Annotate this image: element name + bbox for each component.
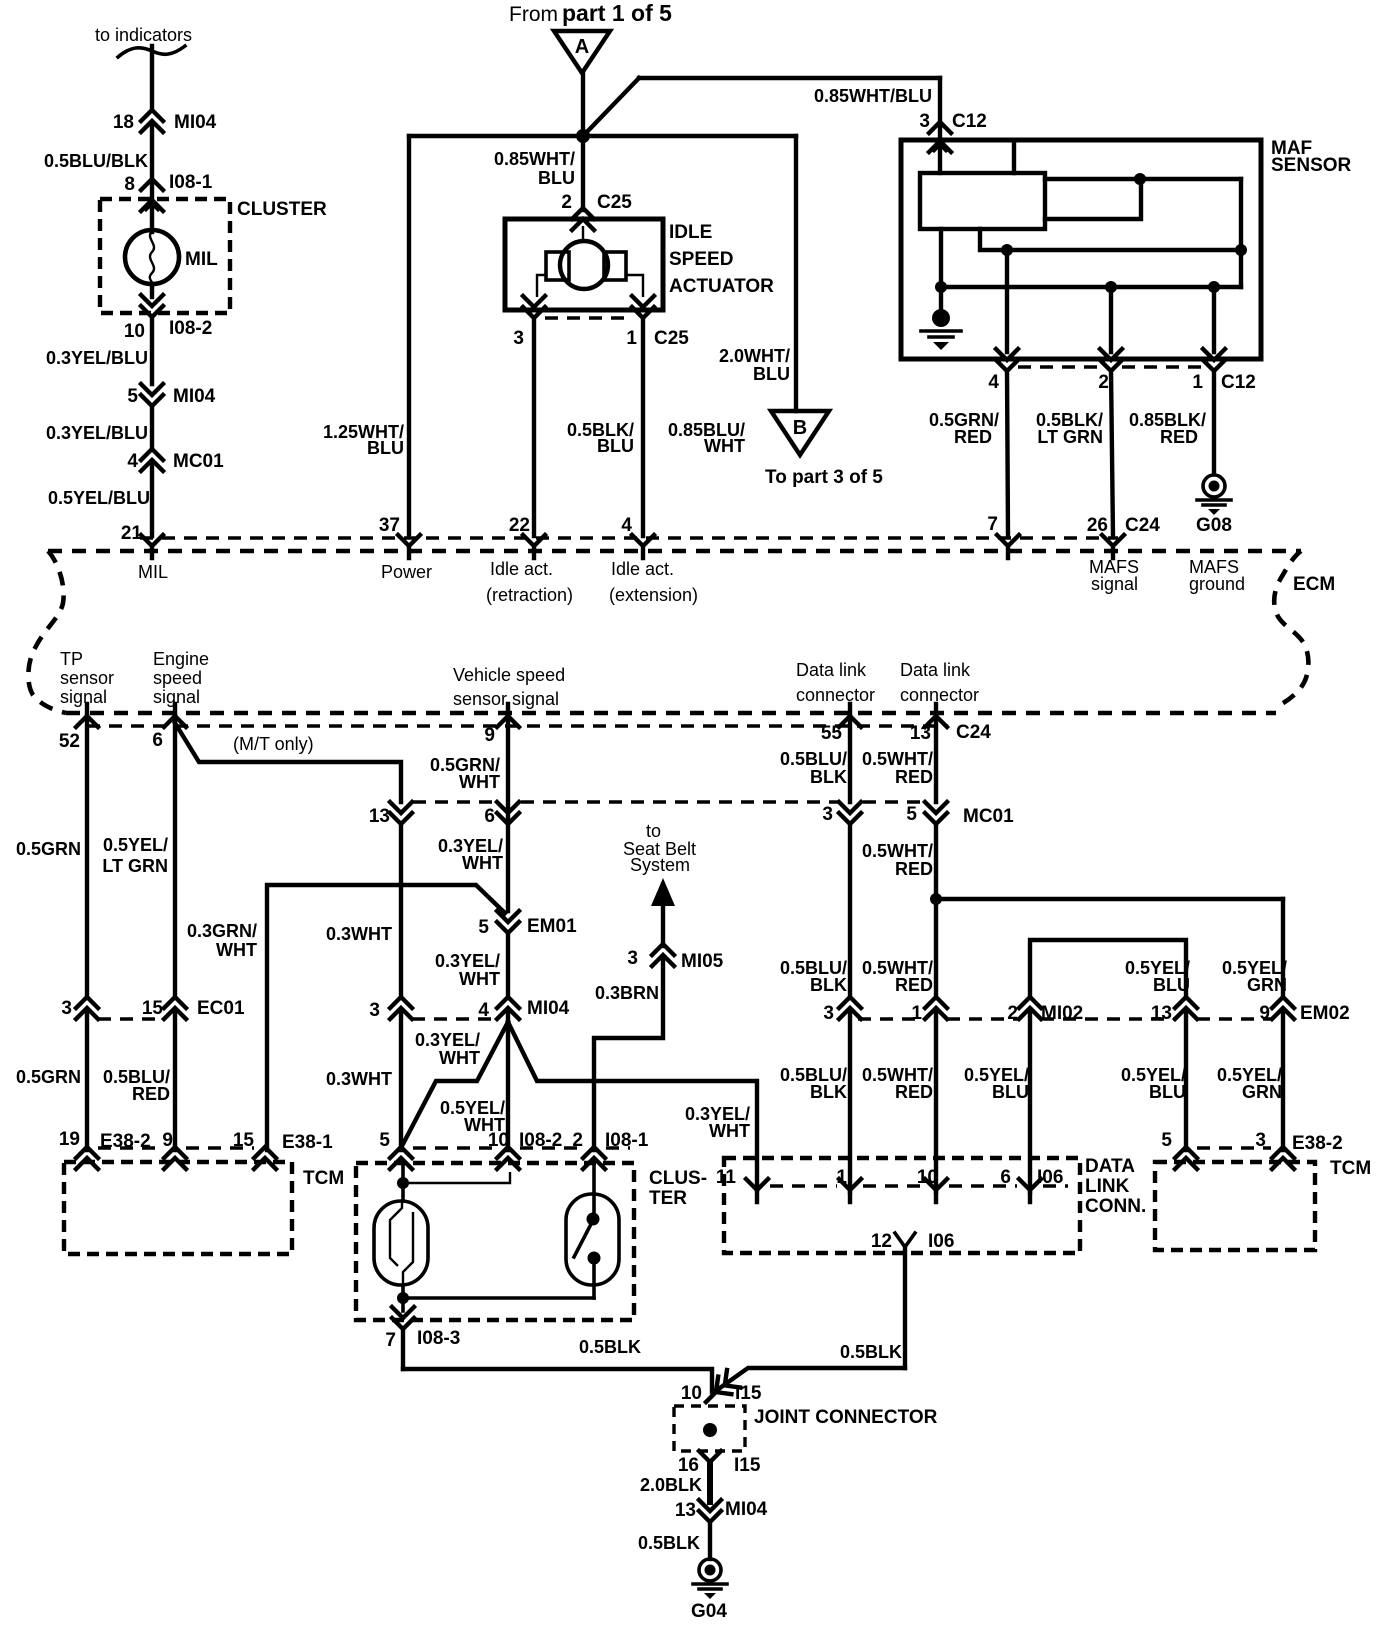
svg-text:C25: C25 <box>597 192 632 213</box>
svg-text:6: 6 <box>152 730 163 751</box>
svg-text:MI04: MI04 <box>173 386 216 407</box>
svg-text:TER: TER <box>649 1188 687 1209</box>
svg-text:WHT: WHT <box>439 1048 480 1068</box>
svg-text:1: 1 <box>911 1003 922 1024</box>
svg-text:B: B <box>793 417 807 439</box>
svg-text:WHT: WHT <box>709 1121 750 1141</box>
svg-text:EM02: EM02 <box>1300 1003 1350 1024</box>
svg-text:1: 1 <box>836 1167 847 1188</box>
svg-text:0.3YEL/: 0.3YEL/ <box>435 951 500 971</box>
svg-text:6: 6 <box>484 806 495 827</box>
svg-text:EC01: EC01 <box>197 998 245 1019</box>
svg-text:0.5YEL/BLU: 0.5YEL/BLU <box>48 488 150 508</box>
svg-text:speed: speed <box>153 668 202 688</box>
svg-text:part 1 of 5: part 1 of 5 <box>562 0 672 26</box>
svg-text:4: 4 <box>988 372 999 393</box>
svg-text:BLU: BLU <box>992 1082 1029 1102</box>
svg-text:0.5BLK: 0.5BLK <box>840 1342 902 1362</box>
svg-text:0.5WHT/: 0.5WHT/ <box>862 841 933 861</box>
svg-text:1: 1 <box>626 328 637 349</box>
svg-text:9: 9 <box>484 725 495 746</box>
svg-text:0.3YEL/BLU: 0.3YEL/BLU <box>46 423 148 443</box>
svg-text:I08-3: I08-3 <box>417 1328 460 1349</box>
svg-text:13: 13 <box>369 806 390 827</box>
svg-text:E38-1: E38-1 <box>282 1132 333 1153</box>
svg-text:GRN: GRN <box>1247 975 1287 995</box>
svg-text:BLK: BLK <box>810 1082 847 1102</box>
svg-text:JOINT CONNECTOR: JOINT CONNECTOR <box>754 1407 938 1428</box>
svg-text:5: 5 <box>478 917 489 938</box>
svg-text:BLU: BLU <box>1149 1082 1186 1102</box>
svg-text:10: 10 <box>124 321 145 342</box>
svg-text:0.5BLU/BLK: 0.5BLU/BLK <box>44 151 148 171</box>
svg-text:EM01: EM01 <box>527 916 577 937</box>
svg-text:I08-1: I08-1 <box>169 172 213 193</box>
svg-text:LT GRN: LT GRN <box>102 856 168 876</box>
svg-text:0.3BRN: 0.3BRN <box>595 983 659 1003</box>
svg-text:3: 3 <box>513 328 524 349</box>
svg-text:0.5GRN: 0.5GRN <box>16 1067 81 1087</box>
svg-text:0.3YEL/: 0.3YEL/ <box>415 1030 480 1050</box>
svg-text:11: 11 <box>716 1167 737 1188</box>
svg-text:5: 5 <box>127 386 138 407</box>
svg-text:2: 2 <box>1007 1003 1018 1024</box>
svg-text:0.3WHT: 0.3WHT <box>326 924 392 944</box>
svg-text:3: 3 <box>823 1003 834 1024</box>
svg-text:7: 7 <box>987 514 998 535</box>
svg-text:to indicators: to indicators <box>95 25 192 45</box>
svg-text:10: 10 <box>917 1167 938 1188</box>
svg-text:C24: C24 <box>1125 515 1160 536</box>
svg-text:37: 37 <box>379 515 400 536</box>
svg-text:19: 19 <box>59 1129 80 1150</box>
svg-text:WHT: WHT <box>216 940 257 960</box>
svg-text:ACTUATOR: ACTUATOR <box>669 276 774 297</box>
svg-text:LINK: LINK <box>1085 1176 1130 1197</box>
svg-text:BLU: BLU <box>597 436 634 456</box>
svg-text:signal: signal <box>1091 574 1138 594</box>
svg-text:connector: connector <box>900 685 979 705</box>
svg-text:MIL: MIL <box>185 249 218 270</box>
svg-text:4: 4 <box>621 515 632 536</box>
svg-text:RED: RED <box>1160 427 1198 447</box>
svg-text:MI02: MI02 <box>1041 1003 1083 1024</box>
svg-text:3: 3 <box>627 948 638 969</box>
svg-text:GRN: GRN <box>1242 1082 1282 1102</box>
svg-text:0.85WHT/BLU: 0.85WHT/BLU <box>814 86 932 106</box>
svg-text:signal: signal <box>60 687 107 707</box>
svg-text:RED: RED <box>895 975 933 995</box>
svg-text:TCM: TCM <box>303 1168 344 1189</box>
svg-text:To part 3 of 5: To part 3 of 5 <box>765 467 883 488</box>
svg-text:IDLE: IDLE <box>669 222 712 243</box>
svg-text:RED: RED <box>954 427 992 447</box>
svg-text:3: 3 <box>369 1000 380 1021</box>
svg-text:TCM: TCM <box>1330 1158 1371 1179</box>
svg-text:CONN.: CONN. <box>1085 1196 1146 1217</box>
svg-text:Idle act.: Idle act. <box>611 559 674 579</box>
svg-text:BLU: BLU <box>1153 975 1190 995</box>
svg-text:C12: C12 <box>1221 372 1256 393</box>
svg-text:0.5BLK: 0.5BLK <box>579 1337 641 1357</box>
svg-text:13: 13 <box>1151 1003 1172 1024</box>
svg-text:System: System <box>630 855 690 875</box>
svg-text:0.3WHT: 0.3WHT <box>326 1069 392 1089</box>
svg-text:C25: C25 <box>654 328 689 349</box>
svg-text:21: 21 <box>121 523 143 544</box>
svg-text:RED: RED <box>895 1082 933 1102</box>
svg-text:13: 13 <box>675 1500 696 1521</box>
svg-text:I06: I06 <box>928 1231 954 1252</box>
svg-text:4: 4 <box>127 451 138 472</box>
svg-text:to: to <box>646 821 661 841</box>
svg-text:From: From <box>509 3 558 26</box>
svg-text:WHT: WHT <box>459 969 500 989</box>
svg-text:BLK: BLK <box>810 975 847 995</box>
svg-text:BLK: BLK <box>810 767 847 787</box>
svg-text:13: 13 <box>910 723 931 744</box>
svg-text:MC01: MC01 <box>963 806 1014 827</box>
svg-text:2.0BLK: 2.0BLK <box>640 1475 702 1495</box>
svg-text:MI05: MI05 <box>681 951 724 972</box>
svg-text:ECM: ECM <box>1293 574 1335 595</box>
svg-text:16: 16 <box>678 1455 699 1476</box>
svg-text:BLU: BLU <box>538 168 575 188</box>
svg-text:G04: G04 <box>691 1601 727 1622</box>
svg-text:WHT: WHT <box>462 853 503 873</box>
svg-text:MI04: MI04 <box>527 998 570 1019</box>
svg-text:CLUSTER: CLUSTER <box>237 199 327 220</box>
svg-text:I15: I15 <box>735 1383 762 1404</box>
svg-text:C24: C24 <box>956 722 991 743</box>
svg-text:3: 3 <box>61 998 72 1019</box>
svg-text:BLU: BLU <box>367 438 404 458</box>
svg-text:1: 1 <box>1192 372 1203 393</box>
svg-text:MIL: MIL <box>138 562 168 582</box>
svg-text:5: 5 <box>379 1130 390 1151</box>
svg-text:Data link: Data link <box>900 660 971 680</box>
svg-text:CLUS-: CLUS- <box>649 1168 707 1189</box>
svg-text:22: 22 <box>509 515 530 536</box>
svg-text:MI04: MI04 <box>174 112 217 133</box>
svg-text:10: 10 <box>681 1383 702 1404</box>
svg-text:ground: ground <box>1189 574 1245 594</box>
svg-text:2.0WHT/: 2.0WHT/ <box>719 346 790 366</box>
svg-text:Vehicle speed: Vehicle speed <box>453 665 565 685</box>
svg-text:SPEED: SPEED <box>669 249 733 270</box>
svg-text:MC01: MC01 <box>173 451 224 472</box>
svg-text:0.3GRN/: 0.3GRN/ <box>187 921 257 941</box>
svg-text:8: 8 <box>124 174 135 195</box>
svg-text:A: A <box>575 36 589 58</box>
svg-text:Data link: Data link <box>796 660 867 680</box>
svg-text:26: 26 <box>1087 515 1108 536</box>
svg-text:15: 15 <box>142 998 164 1019</box>
svg-text:7: 7 <box>385 1330 396 1351</box>
svg-text:52: 52 <box>59 731 80 752</box>
svg-text:55: 55 <box>821 723 843 744</box>
svg-text:DATA: DATA <box>1085 1156 1135 1177</box>
svg-text:I15: I15 <box>734 1455 761 1476</box>
svg-text:0.5BLU/: 0.5BLU/ <box>780 749 847 769</box>
svg-text:WHT: WHT <box>459 772 500 792</box>
svg-text:RED: RED <box>895 859 933 879</box>
svg-text:RED: RED <box>132 1084 170 1104</box>
svg-text:0.5WHT/: 0.5WHT/ <box>862 749 933 769</box>
svg-text:I08-2: I08-2 <box>169 318 212 339</box>
svg-text:LT GRN: LT GRN <box>1037 427 1103 447</box>
svg-text:5: 5 <box>906 804 917 825</box>
svg-text:SENSOR: SENSOR <box>1271 155 1352 176</box>
svg-text:G08: G08 <box>1196 515 1232 536</box>
svg-text:Idle act.: Idle act. <box>490 559 553 579</box>
svg-text:2: 2 <box>561 192 572 213</box>
svg-text:3: 3 <box>919 111 930 132</box>
svg-text:0.3YEL/BLU: 0.3YEL/BLU <box>46 348 148 368</box>
svg-text:0.5YEL/: 0.5YEL/ <box>103 835 168 855</box>
svg-text:C12: C12 <box>952 111 987 132</box>
svg-text:0.5GRN: 0.5GRN <box>16 839 81 859</box>
svg-text:WHT: WHT <box>704 436 745 456</box>
svg-text:Power: Power <box>381 562 432 582</box>
svg-text:(M/T only): (M/T only) <box>233 734 314 754</box>
svg-text:(retraction): (retraction) <box>486 585 573 605</box>
svg-text:connector: connector <box>796 685 875 705</box>
svg-text:MI04: MI04 <box>725 1499 768 1520</box>
svg-text:sensor: sensor <box>60 668 114 688</box>
svg-text:BLU: BLU <box>753 364 790 384</box>
svg-text:E38-2: E38-2 <box>1292 1133 1343 1154</box>
svg-text:18: 18 <box>113 112 134 133</box>
svg-text:TP: TP <box>60 649 83 669</box>
svg-text:2: 2 <box>1098 372 1109 393</box>
svg-text:9: 9 <box>1259 1003 1270 1024</box>
svg-text:RED: RED <box>895 767 933 787</box>
svg-text:0.5BLK: 0.5BLK <box>638 1533 700 1553</box>
svg-text:(extension): (extension) <box>609 585 698 605</box>
svg-text:3: 3 <box>822 804 833 825</box>
svg-text:5: 5 <box>1161 1130 1172 1151</box>
svg-text:12: 12 <box>871 1231 892 1252</box>
svg-text:0.85WHT/: 0.85WHT/ <box>494 149 575 169</box>
svg-text:Engine: Engine <box>153 649 209 669</box>
